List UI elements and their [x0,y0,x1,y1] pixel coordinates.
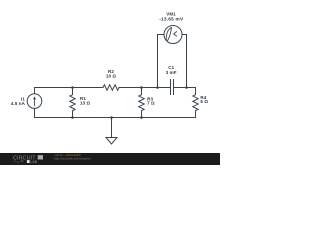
svg-text:7 Ω: 7 Ω [147,101,155,106]
ground stem [111,118,113,138]
resistor R1 (vertical, 13 ohm) [70,88,75,118]
node dot VM1 right [185,86,188,89]
svg-text:5 Ω: 5 Ω [200,99,208,104]
node dot R3 bottom [140,116,143,119]
node dot ground [110,116,113,119]
svg-text:13 Ω: 13 Ω [80,101,91,106]
junction dots [71,86,188,119]
current source I1 arrow [34,99,36,106]
wire top rail middle segment [119,87,171,89]
capacitor C1 plates [171,80,174,95]
svg-text:3 mF: 3 mF [166,70,177,75]
voltmeter VM1 arrow [174,32,177,36]
svg-text:4.5 nA: 4.5 nA [11,101,26,106]
footer logo waveform [14,160,25,163]
node dot R3 top [140,86,143,89]
svg-text:LAB: LAB [30,160,37,164]
node dot R1 bottom [71,116,74,119]
node dot R1 top [71,86,74,89]
svg-text:10 Ω: 10 Ω [106,74,117,79]
resistor R3 (vertical, 7 ohm) [139,88,144,118]
resistor R2 (horizontal, 10 ohm) [103,85,119,90]
footer logo light box [38,155,43,159]
svg-text:-13.65 mV: -13.65 mV [159,16,184,21]
footer logo LAB box [27,160,30,163]
resistor R4 (vertical, 5 ohm) [193,88,198,118]
wire top rail right segment [174,87,196,89]
wire bottom rail [35,117,196,119]
voltmeter VM1 left lead wire [158,35,165,88]
wire top rail left segment [35,87,104,89]
footer bar [0,153,220,165]
svg-text:http://circuitlab.com/cbejams: http://circuitlab.com/cbejams [54,157,91,161]
current source I1 circle [34,88,36,118]
voltmeter VM1 needle glyph [166,28,171,40]
ground triangle [106,138,117,145]
voltmeter VM1 circle [164,26,182,44]
node dot VM1 left [156,86,159,89]
voltmeter VM1 right lead wire [182,35,187,88]
